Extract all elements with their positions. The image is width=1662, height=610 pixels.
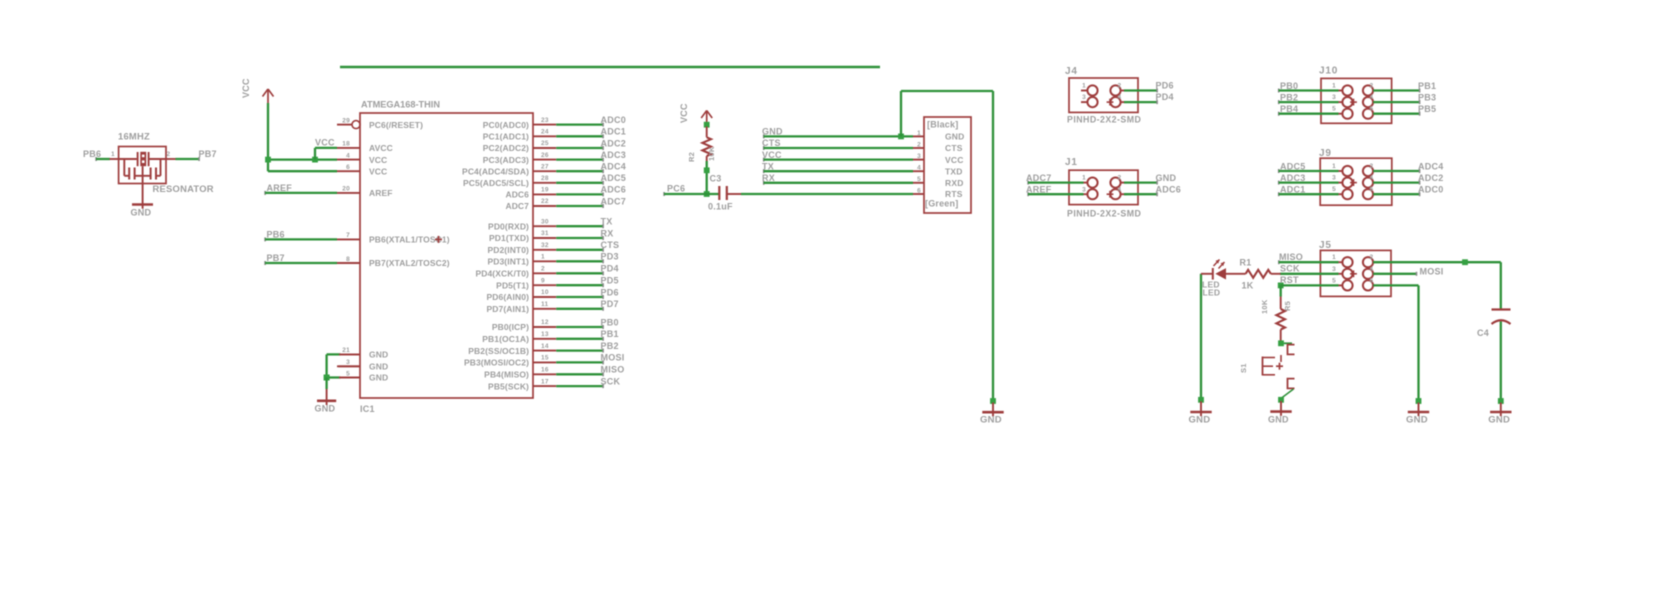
svg-text:3: 3 [1332,266,1336,273]
svg-text:ATMEGA168-THIN: ATMEGA168-THIN [361,100,440,110]
svg-text:5: 5 [1332,186,1336,193]
svg-text:4: 4 [346,152,350,159]
svg-text:J5: J5 [1319,240,1332,251]
svg-text:PD1(TXD): PD1(TXD) [489,233,529,243]
svg-text:ADC3: ADC3 [1280,173,1306,183]
svg-text:ADC4: ADC4 [1418,161,1444,171]
svg-text:PD5(T1): PD5(T1) [496,280,529,290]
svg-text:RXD: RXD [945,178,964,188]
svg-text:J4: J4 [1065,66,1078,77]
svg-text:GND: GND [1406,415,1428,426]
svg-text:11: 11 [541,301,549,308]
svg-text:0.1uF: 0.1uF [708,202,733,212]
svg-text:2: 2 [541,266,545,273]
svg-text:26: 26 [541,152,549,159]
svg-text:AREF: AREF [1026,184,1052,194]
svg-text:PD6(AIN0): PD6(AIN0) [487,292,530,302]
svg-text:SCK: SCK [601,376,621,386]
svg-text:R1: R1 [1240,257,1252,267]
svg-text:GND: GND [980,415,1002,426]
svg-text:2: 2 [167,151,171,158]
svg-text:10K: 10K [1260,299,1269,314]
svg-text:ADC2: ADC2 [601,138,627,148]
svg-text:2: 2 [1370,254,1374,261]
svg-text:GND: GND [1189,415,1211,426]
svg-text:PB7: PB7 [267,253,285,263]
svg-text:6: 6 [1370,277,1374,284]
svg-text:PC0(ADC0): PC0(ADC0) [483,120,529,130]
svg-text:GND: GND [945,132,965,142]
svg-text:PD3: PD3 [601,252,619,262]
svg-text:31: 31 [541,230,549,237]
svg-text:1: 1 [917,130,921,137]
svg-text:PC6: PC6 [667,183,685,193]
svg-text:PB4(MISO): PB4(MISO) [484,370,529,380]
svg-text:30: 30 [541,218,549,225]
svg-text:ADC2: ADC2 [1418,173,1444,183]
svg-text:8: 8 [346,256,350,263]
svg-text:PB0: PB0 [601,317,619,327]
svg-text:TX: TX [601,217,613,227]
svg-text:IC1: IC1 [360,404,375,414]
svg-text:2: 2 [1370,163,1374,170]
svg-text:4: 4 [917,165,921,172]
svg-text:PB1(OC1A): PB1(OC1A) [482,334,529,344]
svg-text:PB2: PB2 [601,341,619,351]
svg-text:3: 3 [1082,186,1086,193]
svg-text:PC5(ADC5/SCL): PC5(ADC5/SCL) [463,178,529,188]
svg-text:AREF: AREF [267,183,293,193]
svg-text:AREF: AREF [369,188,393,198]
svg-text:10: 10 [541,289,549,296]
svg-text:32: 32 [541,242,549,249]
svg-text:C3: C3 [710,174,722,184]
svg-text:PB0: PB0 [1280,81,1298,91]
svg-text:PB2: PB2 [1280,92,1298,102]
svg-text:1K: 1K [1242,280,1254,290]
svg-text:4: 4 [1118,94,1122,101]
svg-text:PD4: PD4 [1156,92,1174,102]
svg-text:ADC0: ADC0 [601,115,627,125]
svg-text:PD7: PD7 [601,299,619,309]
svg-text:6: 6 [346,164,350,171]
svg-text:RESONATOR: RESONATOR [153,183,214,194]
svg-text:29: 29 [342,117,350,124]
svg-text:RX: RX [601,228,614,238]
svg-text:MOSI: MOSI [601,353,625,363]
svg-text:ADC1: ADC1 [601,127,627,137]
svg-text:5: 5 [1332,277,1336,284]
svg-text:6: 6 [917,187,921,194]
svg-text:RX: RX [762,173,775,183]
svg-text:J10: J10 [1319,66,1338,77]
svg-text:20: 20 [342,186,350,193]
svg-text:PB3(MOSI/OC2): PB3(MOSI/OC2) [464,358,529,368]
svg-text:PB6: PB6 [83,149,101,159]
svg-text:ADC0: ADC0 [1418,185,1444,195]
svg-text:ADC4: ADC4 [601,162,627,172]
svg-text:23: 23 [541,117,549,124]
svg-text:PB6: PB6 [267,230,285,240]
svg-text:PD6: PD6 [601,287,619,297]
svg-text:13: 13 [541,331,549,338]
svg-text:27: 27 [541,163,549,170]
svg-text:2: 2 [1118,175,1122,182]
svg-text:ADC5: ADC5 [601,173,627,183]
svg-text:VCC: VCC [315,137,335,147]
svg-text:VCC: VCC [679,103,689,123]
svg-text:PB1: PB1 [1418,81,1436,91]
svg-text:12: 12 [541,319,549,326]
svg-text:3: 3 [1332,94,1336,101]
svg-text:28: 28 [541,175,549,182]
svg-text:7: 7 [346,232,350,239]
svg-text:ADC7: ADC7 [601,196,627,206]
svg-text:CTS: CTS [945,143,963,153]
svg-text:3: 3 [917,153,921,160]
svg-text:PD6: PD6 [1156,80,1174,90]
svg-text:PB0(ICP): PB0(ICP) [492,322,529,332]
svg-text:[Green]: [Green] [925,199,958,209]
svg-text:3: 3 [1332,175,1336,182]
svg-text:PC1(ADC1): PC1(ADC1) [483,132,529,142]
svg-text:4: 4 [1118,186,1122,193]
svg-text:5: 5 [1332,106,1336,113]
svg-text:PB5: PB5 [1418,104,1436,114]
svg-text:1: 1 [1332,254,1336,261]
svg-text:6: 6 [1370,106,1374,113]
svg-text:LED: LED [1203,288,1221,298]
svg-text:5: 5 [346,370,350,377]
svg-text:GND: GND [131,208,152,218]
svg-text:2: 2 [1370,83,1374,90]
svg-text:PD3(INT1): PD3(INT1) [487,257,529,267]
svg-text:[Black]: [Black] [927,120,958,130]
svg-text:ADC1: ADC1 [1280,185,1306,195]
svg-text:GND: GND [369,362,388,372]
svg-text:GND: GND [369,350,388,360]
svg-text:16: 16 [541,367,549,374]
svg-text:PD5: PD5 [601,276,619,286]
svg-text:R2: R2 [687,152,696,162]
svg-text:MISO: MISO [1279,252,1303,262]
svg-text:1: 1 [541,254,545,261]
svg-text:21: 21 [342,347,350,354]
svg-text:2: 2 [1118,83,1122,90]
svg-text:9: 9 [541,277,545,284]
svg-text:VCC: VCC [945,155,964,165]
svg-text:4: 4 [1370,94,1374,101]
svg-text:GND: GND [369,373,388,383]
svg-text:PC3(ADC3): PC3(ADC3) [483,155,529,165]
svg-text:14: 14 [541,343,549,350]
svg-text:ADC6: ADC6 [1156,184,1182,194]
svg-text:PD4(XCK/T0): PD4(XCK/T0) [475,269,529,279]
svg-text:15: 15 [541,355,549,362]
svg-text:10K: 10K [707,146,716,161]
svg-text:ADC7: ADC7 [1026,173,1052,183]
svg-text:2: 2 [917,141,921,148]
svg-text:GND: GND [1156,173,1177,183]
svg-text:PB7: PB7 [199,149,217,159]
svg-text:S1: S1 [1239,363,1248,373]
svg-text:4: 4 [1370,175,1374,182]
svg-text:17: 17 [541,378,549,385]
svg-text:ADC6: ADC6 [505,190,529,200]
svg-text:22: 22 [541,198,549,205]
svg-text:6: 6 [1370,186,1374,193]
svg-text:RST: RST [1280,275,1299,285]
svg-text:GND: GND [1268,414,1289,424]
svg-text:3: 3 [346,359,350,366]
svg-text:PC2(ADC2): PC2(ADC2) [483,143,529,153]
svg-text:SCK: SCK [1280,263,1300,273]
svg-text:PC6(/RESET): PC6(/RESET) [369,120,423,130]
svg-text:VCC: VCC [762,150,782,160]
svg-text:VCC: VCC [369,166,387,176]
svg-text:25: 25 [541,140,549,147]
svg-text:MISO: MISO [601,365,625,375]
svg-text:AVCC: AVCC [369,143,393,153]
svg-text:J1: J1 [1065,157,1078,168]
svg-text:CTS: CTS [601,240,620,250]
svg-text:PD0(RXD): PD0(RXD) [488,221,529,231]
svg-text:1: 1 [1082,83,1086,90]
svg-text:PINHD-2X2-SMD: PINHD-2X2-SMD [1067,115,1141,125]
svg-text:TX: TX [762,161,774,171]
svg-text:19: 19 [541,187,549,194]
svg-text:ADC7: ADC7 [505,201,529,211]
svg-text:4: 4 [1370,266,1374,273]
svg-text:VCC: VCC [369,155,387,165]
svg-text:MOSI: MOSI [1420,267,1444,277]
svg-text:PB4: PB4 [1280,104,1298,114]
svg-text:1: 1 [1332,83,1336,90]
svg-text:VCC: VCC [241,78,251,98]
svg-text:PINHD-2X2-SMD: PINHD-2X2-SMD [1067,209,1141,219]
svg-text:PB2(SS/OC1B): PB2(SS/OC1B) [468,346,529,356]
svg-text:TXD: TXD [945,166,963,176]
svg-text:GND: GND [1488,415,1510,426]
svg-text:16MHZ: 16MHZ [118,131,150,142]
svg-text:PB1: PB1 [601,329,619,339]
svg-text:1: 1 [1082,175,1086,182]
svg-text:ADC3: ADC3 [601,150,627,160]
svg-text:1: 1 [1332,163,1336,170]
svg-text:C4: C4 [1477,328,1489,338]
svg-text:ADC6: ADC6 [601,185,627,195]
svg-text:CTS: CTS [762,138,781,148]
svg-text:1: 1 [111,151,115,158]
svg-text:PD2(INT0): PD2(INT0) [487,245,529,255]
svg-text:PD7(AIN1): PD7(AIN1) [487,304,530,314]
svg-text:GND: GND [762,127,783,137]
svg-text:PB3: PB3 [1418,92,1436,102]
svg-text:GND: GND [315,404,336,414]
svg-text:ADC5: ADC5 [1280,161,1306,171]
svg-text:18: 18 [342,141,350,148]
svg-text:R5: R5 [1283,301,1292,311]
svg-text:3: 3 [1082,94,1086,101]
svg-text:PD4: PD4 [601,264,619,274]
svg-text:PC4(ADC4/SDA): PC4(ADC4/SDA) [462,166,529,176]
svg-text:PB5(SCK): PB5(SCK) [488,381,529,391]
svg-text:PB7(XTAL2/TOSC2): PB7(XTAL2/TOSC2) [369,258,450,268]
svg-text:5: 5 [917,176,921,183]
svg-text:24: 24 [541,129,549,136]
